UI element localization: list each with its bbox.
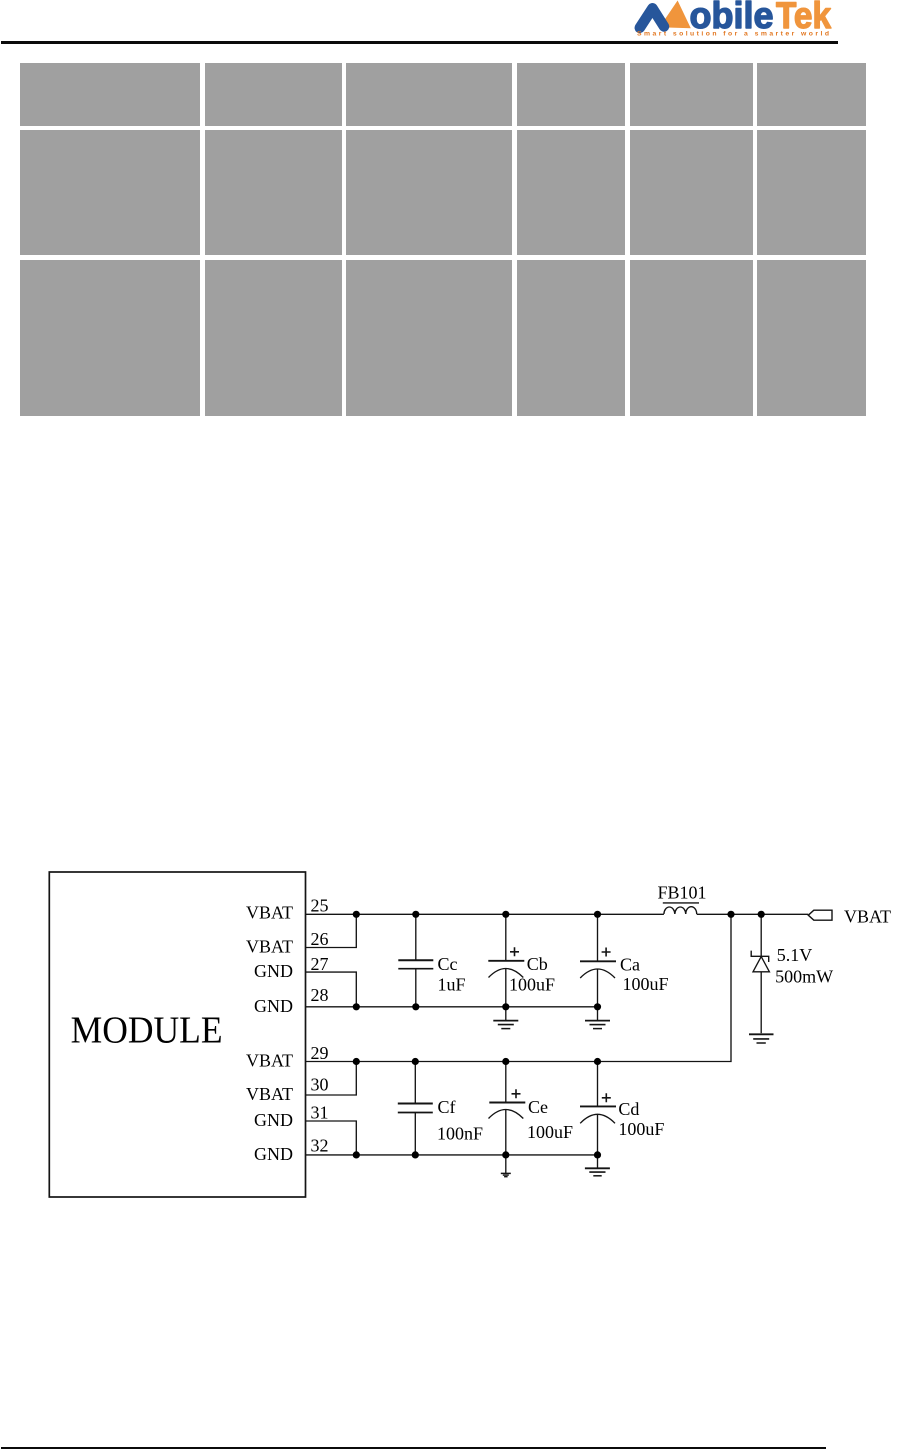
svg-text:32: 32 [311,1135,329,1155]
svg-text:100nF: 100nF [437,1124,483,1144]
svg-text:30: 30 [311,1075,329,1095]
svg-text:Cc: Cc [438,954,458,974]
svg-text:VBAT: VBAT [844,907,891,927]
svg-text:GND: GND [254,1110,293,1130]
svg-text:Ca: Ca [620,954,640,974]
svg-text:100uF: 100uF [618,1119,664,1139]
svg-text:5.1V: 5.1V [777,945,813,965]
svg-text:GND: GND [254,1144,293,1164]
svg-text:Ce: Ce [528,1097,548,1117]
svg-text:GND: GND [254,961,293,981]
svg-text:VBAT: VBAT [246,1051,293,1071]
svg-text:VBAT: VBAT [246,903,293,923]
svg-text:100uF: 100uF [509,975,555,995]
svg-text:1uF: 1uF [438,975,466,995]
svg-text:100uF: 100uF [527,1122,573,1142]
svg-text:27: 27 [311,954,329,974]
svg-text:VBAT: VBAT [246,1084,293,1104]
svg-text:GND: GND [254,996,293,1016]
svg-text:MODULE: MODULE [71,1010,223,1052]
svg-text:31: 31 [311,1102,329,1122]
svg-text:Cb: Cb [527,954,548,974]
svg-text:Cd: Cd [618,1099,639,1119]
svg-text:100uF: 100uF [623,974,669,994]
svg-text:29: 29 [311,1043,329,1063]
svg-text:500mW: 500mW [775,967,833,987]
svg-text:28: 28 [311,985,329,1005]
svg-text:Cf: Cf [438,1097,456,1117]
svg-text:FB101: FB101 [658,883,707,903]
svg-text:25: 25 [311,895,329,915]
svg-text:26: 26 [311,929,329,949]
svg-text:VBAT: VBAT [246,937,293,957]
